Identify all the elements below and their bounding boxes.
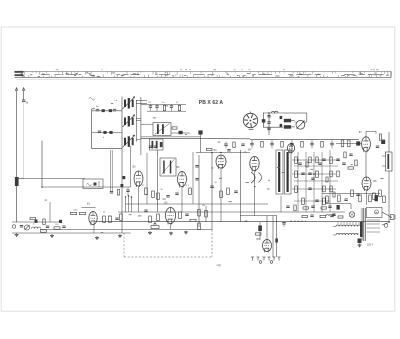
ground g6 — [170, 232, 172, 233]
tube B10 small — [287, 144, 294, 153]
ground g2 — [51, 234, 53, 235]
resistor R27 — [220, 191, 223, 198]
resistor R71 — [256, 233, 262, 235]
capacitor C25a — [195, 165, 198, 167]
IF transformer S3 box — [160, 158, 176, 176]
corridor blob A — [123, 176, 126, 179]
volume pot — [151, 226, 159, 229]
trimmer cap pair B2 — [109, 131, 112, 134]
wire v x50 — [49, 202, 51, 222]
resistor RS1 — [172, 127, 177, 129]
wire v x306 — [305, 152, 307, 212]
ground g3 — [96, 236, 98, 237]
dial scale strip — [15, 70, 392, 79]
coil L5 bumps — [271, 111, 278, 113]
dashed h right — [290, 220, 306, 222]
wire h y187 — [42, 186, 131, 188]
antenna arrow right — [22, 88, 25, 91]
resistor R48 — [359, 195, 362, 202]
wire right y203.6 — [325, 203, 351, 205]
parts y207 mid — [286, 205, 289, 207]
capacitor C72 dark — [275, 239, 278, 243]
wire bus y221.7 — [95, 221, 390, 223]
wire v x136.3 — [135, 100, 137, 142]
right mid wires — [292, 159, 340, 161]
capacitor Csw1 — [267, 114, 270, 116]
wire h y100.3 — [136, 99, 147, 101]
ground g4 — [119, 234, 121, 235]
node junction (42,187) — [41, 186, 43, 188]
wire h y136.9 — [141, 136, 201, 138]
corridor resistor — [117, 190, 119, 196]
svg-text:1n: 1n — [33, 224, 36, 226]
svg-text:47: 47 — [176, 102, 179, 104]
wire right y215.6 — [240, 215, 277, 217]
capacitor C dark mid — [198, 130, 202, 134]
wire v x263.3 — [262, 113, 264, 128]
wire v x206 — [205, 206, 207, 222]
svg-text:B6: B6 — [177, 166, 181, 169]
component row below top bus — [250, 142, 253, 144]
trimmer cap pair A2 — [109, 109, 112, 112]
capacitor C62 — [185, 213, 188, 215]
switch dark contact B — [280, 124, 283, 127]
capacitor C41 dark — [356, 141, 360, 145]
wire main top bus y139.6 — [250, 139, 359, 141]
tube B7 output — [362, 137, 371, 152]
resistor R45 — [379, 190, 382, 197]
wire antenna right lead — [23, 90, 25, 100]
svg-text:B7: B7 — [359, 131, 363, 134]
wire h y127 switch — [263, 126, 283, 128]
svg-text:t.o.: t.o. — [115, 99, 118, 102]
tube B1 FM unit — [89, 212, 97, 225]
right mid extra parts — [298, 162, 301, 164]
power transformer core — [362, 208, 364, 241]
capacitor C73 — [282, 222, 285, 224]
fuse dark — [358, 239, 362, 244]
voltage selector row2 — [336, 233, 358, 235]
corridor blob B — [121, 184, 124, 187]
choke L6 — [284, 119, 291, 123]
label tuning gang — [249, 128, 254, 130]
svg-text:1k: 1k — [103, 212, 106, 214]
cluster right of columns — [344, 152, 346, 158]
wire twin vertical a — [110, 150, 112, 191]
IF transformer S4 column A — [276, 150, 283, 194]
wire bus y212 — [118, 211, 345, 213]
FM unit box — [83, 179, 103, 189]
parts row x219-248 — [224, 143, 227, 145]
osc coil box S2 — [150, 139, 164, 150]
tube B4 osc — [250, 157, 259, 171]
wire v x157.5 low — [157, 150, 159, 212]
mains cord — [382, 212, 392, 218]
wire v x147 low — [146, 153, 148, 204]
trimmer cap pair B1 — [98, 130, 101, 132]
speaker top wire — [283, 112, 296, 114]
capacitor C53 — [115, 217, 118, 219]
ground g5 — [149, 231, 151, 232]
svg-text:B3: B3 — [214, 149, 218, 152]
resistor R64 — [190, 219, 196, 221]
selector dark bar — [360, 222, 363, 237]
resistor R62 — [157, 214, 160, 221]
dashed v x212 — [211, 230, 213, 258]
resistor R26 — [205, 211, 208, 218]
squiggle mark — [89, 98, 95, 101]
tube B3 mixer — [216, 155, 226, 168]
resistor R25b — [198, 223, 201, 230]
capacitor antenna series — [22, 99, 25, 101]
choke L7 — [284, 125, 291, 129]
svg-text:B4: B4 — [248, 149, 252, 152]
wire h y104.5 chain — [141, 104, 186, 106]
capacitor Cc2 — [155, 105, 158, 107]
resistor R22 — [152, 191, 155, 198]
wire h y139.8 — [136, 139, 141, 141]
tube B9 rectifier — [263, 240, 272, 252]
capacitor C43 dark — [375, 195, 378, 201]
dashed chassis line — [124, 256, 212, 258]
resistor R23 — [157, 193, 160, 200]
value label smudges — [101, 104, 384, 234]
wire v x269 switch — [268, 113, 270, 135]
wire v x281 — [280, 196, 282, 212]
wire v x260 — [259, 222, 261, 240]
wire antenna down — [16, 186, 18, 222]
wire h y110.8 — [92, 110, 122, 112]
resistor R42 — [348, 140, 351, 147]
coil L2 tuned — [124, 100, 126, 108]
wire v x140.9 — [140, 97, 142, 155]
svg-text:2F: 2F — [218, 141, 221, 144]
extra parts bottom left — [12, 225, 15, 228]
capacitor Csw3 — [267, 127, 270, 129]
selector ticks — [337, 222, 339, 225]
antenna arrow left — [15, 88, 18, 91]
wire v x330 — [329, 150, 331, 212]
svg-text:B5: B5 — [133, 166, 137, 169]
wire h y113 switch top — [263, 112, 283, 114]
resistor R44 — [373, 193, 376, 200]
wire v x199 — [198, 155, 200, 227]
resistor R53 — [71, 212, 77, 214]
svg-text:82: 82 — [149, 102, 152, 104]
wire v x42 — [41, 141, 43, 188]
wire v x322 — [321, 152, 323, 212]
wire v x128.5 — [128, 196, 130, 212]
resistor R54 — [80, 212, 86, 214]
svg-text:c/gt: c/gt — [217, 263, 222, 267]
right mid component grid — [295, 157, 298, 164]
terminal circles — [259, 261, 262, 264]
capacitor C22 — [149, 145, 152, 147]
trimmer cap pair A1 — [96, 108, 99, 110]
svg-text:2x: 2x — [45, 199, 48, 202]
osc coil box S1 — [153, 123, 171, 136]
capacitor C23 — [166, 195, 169, 197]
ground mains — [359, 244, 361, 245]
wire v x298 — [297, 152, 299, 212]
svg-text:47: 47 — [142, 185, 145, 187]
B1 box top — [82, 207, 96, 209]
tube B6 — [178, 172, 187, 187]
wire B7 anode top — [365, 131, 367, 136]
switch dark contact A — [280, 116, 283, 119]
capacitor twin bottom — [110, 191, 113, 193]
svg-text:220 V: 220 V — [367, 244, 374, 247]
svg-text:4p: 4p — [96, 106, 99, 108]
wire v x122 low — [121, 149, 123, 233]
wire h y222 left — [12, 221, 60, 223]
resistor R61 — [149, 216, 152, 223]
osc coil S2 windings — [152, 141, 154, 149]
wire v x389 upper — [388, 132, 390, 152]
svg-text:B9: B9 — [257, 238, 261, 241]
tube B2 — [166, 208, 176, 224]
resistor R28 — [227, 188, 230, 195]
wire v x131.5 — [131, 197, 133, 212]
wire v x267 top — [266, 216, 268, 240]
parts right of B7 — [379, 134, 381, 140]
wire v x314 — [313, 152, 315, 212]
trimmer Ct1 — [24, 225, 29, 230]
resistor R21 — [145, 188, 148, 195]
svg-text:27k: 27k — [74, 210, 78, 212]
wire y143.5 into B7 — [336, 143, 362, 145]
wire v x240.5 — [240, 150, 242, 222]
terminal strip — [252, 257, 254, 261]
ground ant — [16, 233, 18, 234]
svg-text:2n: 2n — [161, 189, 164, 191]
tube B8 indicator — [362, 177, 371, 190]
mains plug — [391, 215, 395, 220]
resistor R47 — [338, 195, 341, 202]
svg-text:220: 220 — [55, 224, 59, 226]
wire v x200.5 — [200, 135, 202, 153]
osc coil S1 windings — [157, 124, 159, 134]
capacitor C42 — [356, 193, 359, 195]
wire v x212 — [211, 152, 213, 230]
wire v x389 lower — [388, 171, 390, 222]
resistor R43 — [351, 190, 354, 197]
resistor Rc1 — [163, 105, 165, 110]
svg-text:PB X 62 A: PB X 62 A — [199, 100, 224, 106]
tube B5 IF amp — [134, 171, 143, 186]
wire h y111 chain — [147, 110, 186, 112]
capacitor C51 — [20, 225, 23, 227]
resistor R41 — [341, 140, 344, 147]
resistor R25a — [198, 210, 201, 217]
svg-text:50: 50 — [215, 182, 218, 184]
resistor R55 — [103, 216, 106, 223]
svg-text:1n: 1n — [162, 102, 165, 104]
coil L8 — [32, 227, 41, 228]
svg-text:b: b — [103, 137, 105, 139]
resistor R63 — [179, 212, 182, 219]
svg-text:B1: B1 — [87, 203, 91, 206]
resistor R56 — [109, 216, 112, 223]
parts row right y196 — [344, 198, 347, 200]
svg-text:1M: 1M — [202, 205, 205, 207]
capacitor CS1 — [179, 131, 183, 134]
capacitor C24 — [175, 192, 178, 194]
wire bus y229.5 — [40, 229, 212, 231]
wire h y132.6 — [92, 132, 122, 134]
capacitor C61 — [144, 209, 147, 211]
power transformer secondary box — [367, 208, 383, 218]
capacitor Cc1 — [149, 105, 152, 107]
wire antenna left lead — [16, 90, 18, 178]
svg-text:B8: B8 — [374, 180, 378, 183]
resistor R57 — [120, 214, 123, 221]
ferrite bracket — [251, 172, 255, 183]
wire main top bus y138.4 — [141, 137, 250, 139]
wire v x273 — [272, 216, 274, 257]
parts near B3 — [207, 148, 213, 150]
svg-text:60: 60 — [26, 102, 29, 104]
tube pin wires — [138, 186, 140, 212]
resistor R52 — [54, 227, 60, 229]
wire h y178.5 — [24, 178, 85, 180]
power transformer taps — [367, 219, 381, 221]
coil L3 tuned — [124, 118, 126, 126]
wire bus bottomleft y233 — [12, 232, 131, 234]
resistor R49 — [369, 195, 372, 202]
wire v x125.5 — [125, 197, 127, 212]
wire h y124.2 — [141, 123, 153, 125]
svg-text:0.1: 0.1 — [186, 185, 190, 187]
parts mains row — [332, 213, 335, 215]
antenna coil L1 — [15, 177, 19, 186]
parts y215 mid — [302, 215, 308, 217]
wire twin vertical b — [111, 150, 113, 191]
tuning gang C0 — [243, 113, 257, 127]
wire v x193 — [192, 152, 194, 204]
IF transformer S4 column B — [285, 150, 292, 194]
wire v x122 — [121, 97, 123, 149]
capacitor C21 — [126, 189, 129, 191]
IF transformer S3 windings — [163, 161, 165, 174]
capacitor Cc3 — [170, 105, 173, 107]
resistor R51 — [41, 230, 47, 232]
wire h y118.5 — [136, 118, 141, 120]
resistor R24 — [189, 188, 192, 195]
capacitor Csw2 — [267, 121, 270, 123]
output transformer T2 — [386, 152, 393, 171]
capacitor C52 — [62, 225, 65, 227]
resistor R46 — [326, 196, 329, 203]
wire right y193.5 — [322, 193, 380, 195]
voltage selector row1 — [336, 225, 361, 227]
tuner box outline — [91, 109, 93, 149]
wire h y103.5 — [136, 103, 147, 105]
resistor Rc2 — [178, 105, 180, 110]
speaker — [296, 120, 305, 129]
capacitor C26 — [210, 185, 213, 187]
wire v x130.5 low — [130, 146, 132, 187]
dark blob left of switch — [262, 119, 266, 122]
wire h y152.5 tubes — [196, 152, 250, 154]
dashed v x124 — [123, 233, 125, 257]
wire bus y204 — [126, 203, 269, 205]
coil L4 tuned — [124, 138, 126, 146]
power transformer winding comb — [361, 208, 364, 210]
wire h y120.3 — [136, 119, 141, 121]
ground g7 — [185, 231, 187, 232]
pilot lamp — [349, 212, 355, 218]
wire antenna right drop — [23, 102, 25, 179]
wire v x276.5 — [276, 216, 278, 257]
wire v x221 — [220, 168, 222, 222]
capacitor C71 dark — [258, 226, 262, 232]
